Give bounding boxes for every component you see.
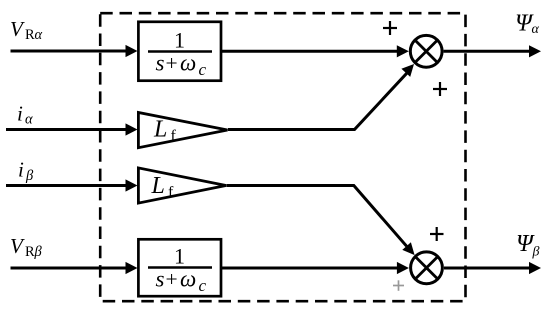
svg-text:s: s (156, 51, 165, 76)
svg-text:V: V (10, 234, 25, 258)
plus sign gray (VRb input of S2) (393, 280, 404, 291)
svg-text:+: + (166, 51, 178, 75)
wire diagonal arrowhead to S1 (401, 64, 414, 77)
filter block G1: 1/(s+wc) (138, 22, 221, 81)
gain block Lf (alpha) triangle (138, 113, 227, 148)
svg-text:+: + (166, 267, 178, 291)
plus sign (Lb input of S2) (430, 227, 444, 241)
svg-text:β: β (34, 244, 43, 260)
svg-text:c: c (199, 60, 207, 79)
wire S1 output (444, 45, 541, 57)
svg-text:1: 1 (174, 244, 185, 269)
svg-text:α: α (35, 27, 43, 43)
wire Lf(beta) to elbow (227, 186, 407, 247)
node ib input label (18, 158, 34, 185)
svg-text:R: R (25, 27, 35, 43)
svg-text:ω: ω (180, 51, 196, 76)
svg-text:1: 1 (174, 28, 185, 53)
wire ia input (6, 123, 138, 135)
node Psi_b output label (516, 231, 540, 260)
node VRa input label (10, 17, 43, 43)
svg-text:β: β (25, 168, 34, 184)
filter block G2: 1/(s+wc) (138, 239, 221, 296)
svg-text:i: i (18, 158, 24, 182)
svg-text:i: i (17, 102, 23, 126)
svg-text:s: s (156, 267, 165, 292)
svg-text:ω: ω (180, 267, 196, 292)
wire ib input (6, 179, 138, 191)
svg-text:f: f (171, 128, 177, 145)
wire VRb input (11, 262, 138, 274)
svg-text:V: V (10, 17, 25, 41)
svg-text:c: c (199, 276, 207, 295)
svg-text:α: α (25, 112, 33, 128)
dashed boundary box (100, 13, 465, 301)
svg-text:R: R (25, 244, 35, 260)
node Psi_a output label (515, 11, 540, 38)
summer S1 (circle with X) (410, 35, 442, 67)
gain block Lf (beta) triangle (138, 168, 226, 203)
svg-text:β: β (532, 245, 540, 260)
wire G2 output to summer S2 (222, 262, 409, 274)
plus sign (La input of S1) (433, 82, 447, 96)
wire VRa input (11, 45, 138, 57)
node ia input label (17, 102, 33, 128)
node VRb input label (10, 234, 43, 260)
plus sign (VRa input of S1) (383, 21, 397, 35)
svg-text:L: L (153, 117, 167, 143)
svg-text:L: L (151, 173, 165, 199)
svg-text:f: f (168, 184, 174, 201)
wire diagonal arrowhead to S2 (402, 242, 414, 255)
svg-text:α: α (532, 22, 540, 37)
wire G1 output to summer S1 (222, 45, 409, 57)
wire S2 output (444, 262, 541, 274)
wire Lf(alpha) to elbow (228, 73, 407, 129)
summer S2 (circle with X) (411, 252, 443, 284)
